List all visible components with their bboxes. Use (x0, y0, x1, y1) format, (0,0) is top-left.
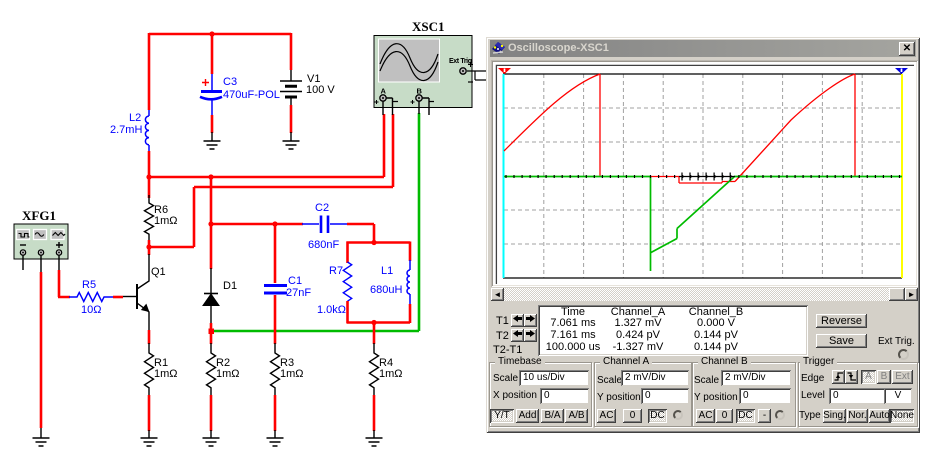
resistor R6 (145, 195, 178, 240)
ground under R4 (366, 430, 383, 446)
wire scope A+ stub (382, 101, 384, 115)
trace red channel A (504, 74, 855, 183)
wire tank to R4 (373, 323, 376, 345)
wire scope A- stub (386, 98, 393, 115)
wire R2 bottom (210, 395, 213, 431)
inductor L2 (110, 110, 149, 151)
wire second rail to scope A- (149, 114, 393, 247)
TITLEBAR (490, 40, 916, 57)
svg-text:680nF: 680nF (308, 239, 339, 251)
wire tank right lower (409, 304, 412, 323)
svg-text:XFG1: XFG1 (22, 208, 56, 223)
wire XFG1 minus stub (22, 255, 24, 270)
svg-text:470uF-POL: 470uF-POL (223, 89, 280, 101)
SCROLLBAR (491, 288, 918, 301)
svg-text:Q1: Q1 (151, 266, 166, 278)
wire tank bottom (347, 321, 411, 324)
resistor R3 (271, 343, 304, 396)
svg-text:L2: L2 (129, 112, 141, 124)
grid horizontal dashed (504, 108, 902, 244)
wire V1 bottom (290, 105, 293, 133)
READOUT (538, 305, 808, 356)
wire C2 right to tank (347, 224, 374, 243)
wire L2 bottom (148, 151, 151, 178)
svg-text:1mΩ: 1mΩ (379, 368, 403, 380)
display frame top/bottom (503, 74, 902, 278)
svg-text:C2: C2 (315, 202, 329, 214)
wire tank left lower (346, 301, 349, 323)
svg-text:680uH: 680uH (370, 284, 402, 296)
svg-text:27nF: 27nF (286, 287, 311, 299)
capacitor C1 (264, 224, 311, 344)
marker 2 triangle (895, 68, 908, 74)
node L2 / mid rail (146, 174, 151, 179)
wire XFG1 plus (58, 255, 60, 271)
node tank top (371, 240, 376, 245)
ground under R2 (203, 430, 220, 446)
capacitor C3 (200, 74, 280, 116)
svg-text:C3: C3 (223, 76, 237, 88)
node R6 / collector (146, 244, 151, 249)
resistor R4 (370, 343, 403, 396)
trace green channel B (504, 177, 902, 272)
svg-text:Ext Trig: Ext Trig (449, 58, 472, 65)
ground under V1 (283, 132, 300, 149)
node top rail / C3 (209, 31, 214, 36)
svg-text:L1: L1 (381, 265, 393, 277)
capacitor C2 (302, 202, 348, 251)
wire tank top (347, 241, 411, 244)
wire R5 to Q1 base (113, 296, 123, 299)
wire V1 top (290, 33, 293, 70)
resistor R1 (145, 343, 178, 396)
axis black segment (679, 176, 735, 178)
wire R6 bottom / collector node (148, 240, 151, 255)
ground under R3 (267, 430, 284, 446)
function generator XFG1 (14, 208, 68, 259)
axis sample ticks (506, 175, 900, 178)
svg-text:A: A (381, 87, 387, 96)
oscilloscope XSC1 icon (374, 19, 489, 108)
wire R6 top (148, 177, 151, 198)
resistor R7 (317, 262, 352, 316)
ground under R1 (141, 430, 158, 446)
wire R4 bottom (373, 395, 376, 431)
wire green scope B (211, 113, 419, 331)
display inner frame (496, 65, 914, 284)
svg-text:B: B (417, 87, 423, 96)
diode D1 (203, 268, 237, 324)
svg-text:10Ω: 10Ω (81, 304, 101, 316)
wire scope B- stub (422, 98, 429, 115)
node tank bottom (371, 320, 376, 325)
DISPLAY sunken panel (491, 60, 918, 287)
wire C3 top (211, 34, 214, 74)
wire XFG1 common (40, 255, 42, 272)
wire scope B+ stub (418, 101, 420, 114)
wire D1 bottom (210, 323, 213, 344)
svg-text:1mΩ: 1mΩ (154, 215, 178, 227)
svg-text:100 V: 100 V (306, 84, 335, 96)
svg-text:1mΩ: 1mΩ (216, 368, 240, 380)
battery V1 (280, 70, 335, 106)
node D1 / mid rail (208, 174, 213, 179)
svg-text:1mΩ: 1mΩ (154, 368, 178, 380)
wire tank left upper (346, 242, 349, 264)
resistor R2 (207, 343, 240, 396)
svg-text:XSC1: XSC1 (412, 19, 445, 34)
ground under XFG1 (33, 438, 50, 446)
wire D1 top (210, 177, 213, 269)
wire Q1 emitter (148, 330, 151, 344)
svg-text:R5: R5 (82, 279, 96, 291)
ground under C3 (204, 132, 221, 149)
grid vertical dashed (544, 74, 862, 278)
svg-text:C1: C1 (288, 275, 302, 287)
channel A probe line (cyan) (503, 74, 505, 278)
channel B probe line (yellow) (901, 74, 903, 278)
wire R3 bottom (274, 395, 277, 431)
wire R1 bottom (148, 395, 151, 431)
OSCILLOSCOPE WINDOW (486, 37, 920, 433)
svg-text:2.7mH: 2.7mH (110, 124, 142, 136)
node feed rail / D1 branch (208, 221, 213, 226)
resistor R5 (69, 279, 113, 316)
node feed rail / C1 (272, 221, 277, 226)
wire C2/C1 feed rail (211, 223, 303, 226)
wire top rail (149, 33, 291, 36)
wire C3 bottom (211, 115, 214, 133)
svg-text:D1: D1 (223, 280, 237, 292)
svg-text:1mΩ: 1mΩ (280, 368, 304, 380)
inductor L1 (370, 260, 410, 305)
GROUPS (489, 362, 592, 427)
transistor Q1 (123, 254, 166, 331)
marker 1 triangle (498, 68, 511, 74)
svg-text:1.0kΩ: 1.0kΩ (317, 304, 346, 316)
node green / D1 branch (209, 329, 215, 335)
wire L2 top (148, 33, 151, 110)
wire tank right upper (409, 242, 412, 262)
svg-text:R7: R7 (329, 265, 343, 277)
wire mid rail to scope A+ (149, 114, 384, 177)
